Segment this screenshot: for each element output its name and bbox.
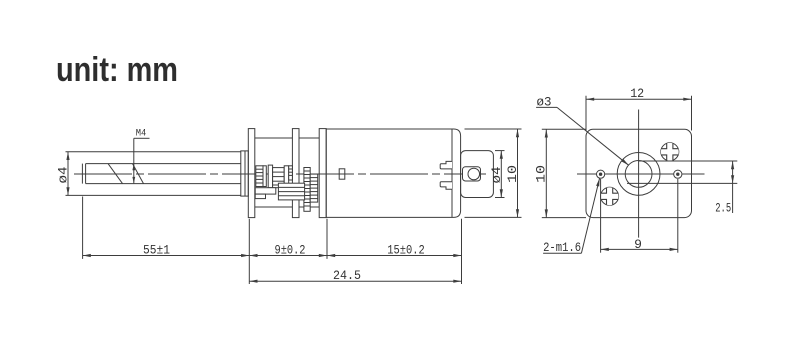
svg-text:10: 10 <box>505 165 520 183</box>
svg-text:24.5: 24.5 <box>333 268 361 283</box>
svg-text:55±1: 55±1 <box>143 243 170 258</box>
svg-text:ø4: ø4 <box>56 166 71 183</box>
svg-text:10: 10 <box>534 165 549 183</box>
svg-text:2.5: 2.5 <box>715 200 731 215</box>
svg-text:9: 9 <box>634 237 642 252</box>
svg-text:15±0.2: 15±0.2 <box>387 243 425 258</box>
svg-text:12: 12 <box>630 86 644 101</box>
svg-text:2-m1.6: 2-m1.6 <box>543 240 581 255</box>
svg-text:ø4: ø4 <box>489 166 504 183</box>
svg-text:9±0.2: 9±0.2 <box>275 243 306 258</box>
